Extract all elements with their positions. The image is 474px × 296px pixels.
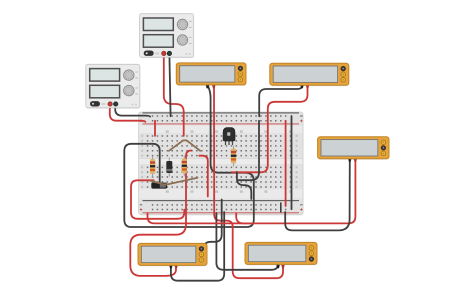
diode D1 — [166, 158, 172, 177]
wire M3 black probe to breadboard — [285, 160, 350, 231]
wire bent jumper 2 — [151, 178, 198, 185]
wire bent jumper 1 — [169, 140, 200, 150]
wire M1 red probe to M5 red probe — [214, 86, 283, 278]
multimeter M4 — [138, 243, 208, 266]
breadboard edge marks — [140, 116, 303, 211]
wire breadboard to M4 black probe — [171, 212, 224, 281]
wire M3 red probe to breadboard — [148, 160, 356, 224]
multimeter M3 probes — [348, 158, 357, 161]
resistor R3 — [231, 146, 236, 167]
wire breadboard to M5 black probe — [216, 213, 278, 270]
wire PS2 - to top rail — [115, 105, 150, 117]
transistor Q1 — [223, 128, 235, 145]
wire PS1 + to breadboard — [164, 54, 184, 136]
wire jumper rows h-j — [237, 172, 251, 199]
multimeter M2 probes — [300, 85, 309, 88]
wire top rail jumper to row h — [238, 121, 259, 180]
wire bottom rail jumper — [280, 203, 282, 212]
breadboard — [139, 112, 304, 216]
wire PS2 + to top rail — [110, 105, 146, 122]
wire M1 black probe loop to breadboard — [124, 86, 254, 227]
multimeter M5 probes — [276, 265, 284, 268]
multimeter M1 probes — [206, 85, 216, 88]
wire breadboard loop left — [131, 180, 184, 219]
resistor R1 — [150, 156, 155, 177]
wire M2 black probe to top rail — [259, 86, 302, 116]
wire rail-to-rail jumper black — [291, 116, 293, 209]
wire top rail jumper — [154, 121, 156, 136]
power supply PS2 — [86, 64, 141, 109]
multimeter M1 — [176, 63, 246, 86]
breadboard labels — [141, 130, 297, 192]
multimeter M4 probes — [169, 265, 178, 268]
wire breadboard to behind M4 — [204, 200, 222, 254]
wire breadboard jumper — [199, 156, 208, 197]
multimeter M5 — [245, 242, 318, 265]
wire breadboard stub to M3 red lane — [236, 213, 252, 223]
resistor R2 — [182, 156, 187, 177]
diode D2 — [151, 183, 167, 189]
wire PS1 - to top rail — [169, 54, 170, 116]
breadboard holes — [147, 115, 291, 210]
power supply PS1 — [140, 14, 195, 59]
wire breadboard to M4 red probe — [130, 151, 191, 276]
multimeter M2 — [270, 63, 350, 86]
wire rail-to-rail jumper red — [285, 121, 287, 206]
wire M2 red probe to breadboard row g — [232, 86, 308, 172]
multimeter M3 — [318, 137, 390, 160]
